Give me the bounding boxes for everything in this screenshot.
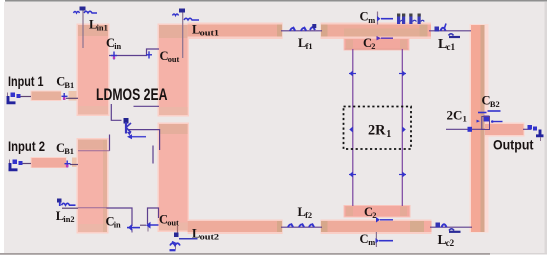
arrow on C2 left branch (in box) bbox=[349, 127, 353, 133]
wire source upper transistor down bbox=[109, 135, 111, 151]
svg-text:in: in bbox=[114, 42, 121, 51]
capacitor C_out top bbox=[146, 51, 152, 58]
wire C2 left branch bbox=[352, 49, 354, 206]
wire C_out bottom cap stem bbox=[147, 227, 149, 232]
capacitor C_B1 (input 2) bbox=[65, 161, 71, 168]
microstrip bar top-right of L_f1 bbox=[321, 23, 432, 40]
svg-text:Input 2: Input 2 bbox=[8, 139, 45, 154]
wire gate upper transistor bbox=[111, 104, 121, 120]
svg-text:f2: f2 bbox=[305, 211, 312, 220]
svg-text:2C: 2C bbox=[447, 107, 463, 122]
wire bias stub below lower-right pad bbox=[177, 226, 179, 236]
wire output port link bbox=[523, 128, 531, 130]
svg-text:in: in bbox=[114, 221, 121, 230]
wire output node bbox=[446, 128, 485, 130]
wire L_in2 feed bbox=[62, 207, 78, 209]
svg-text:1: 1 bbox=[386, 129, 391, 140]
svg-text:B2: B2 bbox=[490, 100, 500, 109]
svg-text:out: out bbox=[168, 55, 180, 64]
top frame line bbox=[5, 0, 547, 2]
wire C_m top stem bbox=[377, 12, 379, 25]
svg-text:B1: B1 bbox=[64, 81, 74, 90]
microstrip input connector 2 bbox=[72, 158, 78, 168]
microstrip input line 2 bbox=[31, 157, 67, 168]
wire C_B1 to transistor pad 1 bbox=[66, 97, 78, 99]
port Output symbol bbox=[528, 125, 544, 141]
svg-text:out2: out2 bbox=[200, 232, 220, 241]
svg-text:Input 1: Input 1 bbox=[8, 74, 44, 89]
wire lower transistor gate stub bbox=[152, 146, 154, 164]
capacitor C_in top bbox=[111, 52, 117, 60]
transistor arrow lower bbox=[127, 134, 146, 139]
capacitor 2C_1 tick bbox=[468, 127, 473, 132]
wire L_c1 link bbox=[429, 30, 471, 32]
wire C_m bottom stem bbox=[375, 232, 377, 247]
microstrip output line bbox=[485, 123, 525, 137]
svg-text:in1: in1 bbox=[97, 23, 108, 32]
wire L_f2 link bbox=[281, 226, 322, 228]
inductor L_out1 symbol bbox=[173, 9, 200, 21]
svg-text:LDMOS 2EA: LDMOS 2EA bbox=[96, 86, 168, 104]
capacitor C_B2 cluster bbox=[477, 111, 503, 130]
wire drain lower transistor bbox=[128, 130, 160, 150]
svg-text:B1: B1 bbox=[64, 147, 74, 156]
wire C_out bottom coupling bbox=[148, 208, 159, 224]
wire C_in top coupling bbox=[109, 49, 159, 56]
port Input 2 symbol bbox=[9, 160, 23, 171]
svg-text:Output: Output bbox=[493, 137, 534, 153]
wire input port 2 to line bbox=[19, 163, 31, 165]
arrow on C2 left branch (bottom) bbox=[349, 172, 356, 178]
wire drain upper transistor bbox=[134, 105, 160, 107]
capacitor C_B1 (input 1) bbox=[62, 93, 68, 100]
capacitor C_out bottom bbox=[146, 222, 159, 229]
wire C2 right branch bbox=[401, 49, 403, 206]
inductor L_f2 symbol bbox=[288, 224, 314, 228]
svg-text:out: out bbox=[167, 219, 179, 228]
wire L_in1 feed bbox=[82, 11, 84, 49]
bias glyph below lower-right pad bbox=[170, 233, 198, 251]
wire L_c2 link bbox=[430, 226, 472, 228]
microstrip L_out2 bar bottom-left bbox=[188, 220, 283, 235]
capacitor C_in bottom bbox=[127, 224, 140, 231]
svg-text:in2: in2 bbox=[63, 215, 74, 224]
right frame shade bbox=[545, 2, 548, 253]
svg-text:2: 2 bbox=[372, 211, 376, 220]
wire input port 1 to line bbox=[19, 96, 31, 98]
svg-text:c1: c1 bbox=[446, 42, 455, 52]
svg-text:c2: c2 bbox=[446, 238, 455, 248]
wire L_out1 feed bbox=[182, 13, 184, 59]
svg-text:m: m bbox=[368, 238, 375, 247]
inductor L_f1 symbol bbox=[290, 24, 316, 31]
svg-text:2R: 2R bbox=[368, 123, 386, 139]
svg-text:1: 1 bbox=[463, 114, 467, 124]
arrow on C2 right branch (top) bbox=[399, 71, 406, 77]
bondwire group on top bar bbox=[397, 14, 424, 25]
LDMOS transistor pad upper-right bbox=[158, 24, 190, 117]
port Input 1 symbol bbox=[7, 93, 21, 104]
microstrip bar bottom-right of L_f2 bbox=[321, 220, 432, 235]
capacitor C_m top symbol bbox=[377, 16, 393, 21]
svg-text:C: C bbox=[360, 232, 369, 246]
transistor die symbol bbox=[124, 118, 132, 136]
LDMOS transistor pad lower-left bbox=[77, 138, 109, 234]
resistor 2R1 dotted box bbox=[344, 107, 412, 150]
svg-text:f1: f1 bbox=[306, 42, 313, 51]
bottom frame line bbox=[0, 253, 490, 255]
LDMOS transistor pad lower-right bbox=[158, 123, 190, 233]
microstrip input connector 1 bbox=[69, 91, 79, 101]
inductor L_in1 symbol bbox=[74, 7, 98, 14]
capacitor C_m bottom symbol bbox=[376, 238, 394, 243]
LDMOS transistor pad upper-left bbox=[77, 24, 110, 117]
microstrip input line 1 bbox=[31, 91, 62, 102]
microstrip L_out1 bar top-left bbox=[188, 23, 283, 40]
inductor L_c1 symbol bbox=[435, 24, 461, 38]
arrow on C2 right branch (in box) bbox=[402, 127, 406, 133]
arrow on C2 left branch (top) bbox=[349, 71, 356, 77]
junction tick on C2 bottom bar bbox=[376, 217, 393, 222]
svg-text:2: 2 bbox=[371, 42, 375, 51]
wire C_out bottom left lead bbox=[140, 224, 146, 226]
junction tick on C2 top bar bbox=[377, 36, 394, 40]
wire L_f1 link bbox=[281, 30, 322, 32]
inductor L_c2 symbol bbox=[436, 223, 461, 232]
svg-text:out1: out1 bbox=[200, 28, 220, 37]
svg-text:C: C bbox=[360, 10, 369, 24]
capacitor C2 bottom bar bbox=[344, 205, 411, 218]
capacitor C2 top bar bbox=[344, 38, 410, 51]
arrow on C2 right branch (bottom) bbox=[399, 172, 406, 178]
wire C_B1(2) to transistor pad 2 bbox=[70, 164, 78, 166]
microstrip vertical bar right bbox=[470, 24, 489, 233]
svg-text:m: m bbox=[368, 16, 375, 25]
wire C_in bottom cap stem bbox=[131, 229, 133, 233]
inductor L_in2 symbol bbox=[57, 199, 76, 207]
wire C_in bottom coupling bbox=[78, 207, 107, 209]
